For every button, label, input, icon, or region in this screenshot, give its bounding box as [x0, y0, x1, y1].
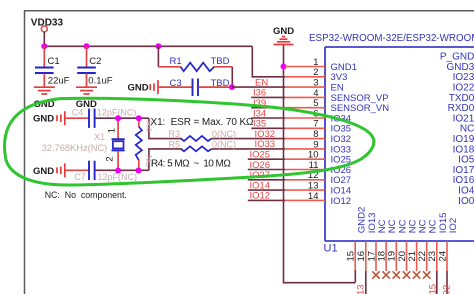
pin 16 bottom (IO13) [356, 212, 378, 271]
power flag VDD33 [31, 17, 64, 46]
pin 9 row (IO33) [255, 139, 352, 155]
pin 11 row (IO26) [248, 160, 351, 176]
svg-text:C7: C7 [74, 172, 86, 182]
svg-text:0.1uF: 0.1uF [88, 75, 112, 86]
ground for C3 (sideways) [128, 80, 159, 94]
svg-text:R1: R1 [170, 56, 182, 67]
pin 2 row (3V3) [285, 67, 347, 83]
svg-text:C3: C3 [170, 78, 182, 89]
wire VDD33 rail [44, 45, 252, 47]
svg-text:IO15: IO15 [428, 284, 439, 294]
svg-text:IO0: IO0 [458, 196, 474, 207]
crystal circuit: ground (C4 row, sideways) [33, 111, 65, 125]
svg-text:1: 1 [107, 128, 118, 133]
resistor R4 (vertical, NC) [136, 118, 154, 170]
svg-text:TBD: TBD [211, 78, 230, 89]
pin 18 bottom (NC) [376, 219, 398, 278]
right side pin names (module continues past image edge) [440, 52, 474, 207]
pin 6 row (IO34) [251, 108, 351, 124]
svg-text:IO12: IO12 [331, 196, 352, 207]
svg-text:GND: GND [128, 83, 149, 94]
ESP32 module U1 outline [309, 33, 474, 255]
svg-text:GND: GND [33, 114, 54, 125]
wire GND down the chip left side [284, 45, 356, 282]
svg-text:12pF(NC): 12pF(NC) [98, 172, 138, 182]
junction node R1 tap [155, 43, 161, 49]
wire R5 to IO33 pin 9 [212, 148, 286, 150]
wire crystal top row corner down to IO32 row [149, 118, 182, 138]
resistor R5 0(NC) [169, 139, 237, 151]
pin 20 bottom (NC) [397, 219, 419, 278]
pin 17 bottom (NC) [366, 219, 388, 278]
capacitor C4 12pF(NC) [66, 107, 149, 128]
wire EN to pin 3 [232, 86, 285, 88]
svg-text:NC: No component.: NC: No component. [45, 190, 127, 200]
capacitor C1 22uF [35, 46, 70, 87]
pin 13 row (IO14) [248, 180, 351, 196]
node EN junction [229, 84, 235, 90]
resistor R3 0(NC) [169, 129, 237, 141]
wire pin24 IO2 continues down [442, 271, 453, 294]
svg-text:U1: U1 [324, 243, 338, 255]
svg-text:GND2: GND2 [356, 207, 367, 234]
junction GND pin1 [281, 64, 287, 70]
pin 24 bottom (IO2) [437, 218, 459, 271]
junction crystal bottom [115, 168, 121, 174]
capacitor C7 12pF(NC) [66, 161, 149, 182]
pin 14 row (IO12) [248, 191, 351, 207]
svg-text:0(NC): 0(NC) [212, 129, 236, 139]
wire R3 to IO32 pin 8 [212, 138, 286, 140]
junction R4 top [136, 115, 142, 121]
svg-text:C4: C4 [72, 107, 84, 117]
wire rail corner down to 3V3 pin 2 [252, 46, 285, 77]
wire R1 output down to EN node [231, 67, 233, 87]
svg-text:ESP32-WROOM-32E/ESP32-WROOM-32: ESP32-WROOM-32E/ESP32-WROOM-32UE [309, 33, 474, 44]
svg-text:GND: GND [273, 26, 294, 37]
pin 4 row (SENSOR_VP) [251, 88, 388, 104]
wire pin15 GND2 down to GND return [354, 271, 356, 283]
svg-text:C2: C2 [89, 56, 101, 67]
svg-text:24: 24 [437, 251, 448, 262]
wire pin23 IO15 continues down [428, 271, 439, 294]
pin 3 row (EN) [285, 78, 344, 94]
pin 19 bottom (NC) [387, 219, 409, 278]
pin 10 row (IO25) [248, 150, 351, 166]
pin 22 bottom (NC) [417, 219, 439, 278]
svg-text:C1: C1 [48, 56, 60, 67]
pin 1 row (GND1) [285, 57, 357, 73]
svg-text:IO12: IO12 [250, 191, 271, 202]
junction node C2 tap [84, 43, 90, 49]
svg-text:22uF: 22uF [48, 75, 70, 86]
ground for C2 [76, 87, 97, 110]
resistor R1 TBD [158, 46, 232, 71]
pin 12 row (IO27) [248, 170, 351, 186]
green annotation ellipse [5, 98, 374, 185]
svg-text:2: 2 [104, 156, 115, 161]
svg-text:R4: 5 MΩ ~ 10 MΩ: R4: 5 MΩ ~ 10 MΩ [151, 159, 231, 170]
pin 23 bottom (IO15) [427, 212, 449, 271]
pin 15 bottom (GND2) [346, 207, 368, 271]
ground for C1 [34, 87, 55, 110]
ground GND top (chip pin 1) [273, 26, 294, 45]
svg-text:IO2: IO2 [448, 218, 459, 233]
svg-text:IO13: IO13 [355, 284, 366, 294]
wire crystal bottom row corner up to IO33 row [149, 149, 182, 171]
wire pin16 IO13 continues down [355, 271, 366, 294]
pin 7 row (IO35) [251, 119, 351, 135]
pin 5 row (SENSOR_VN) [251, 98, 389, 114]
svg-text:R5: R5 [169, 139, 181, 149]
capacitor C2 0.1uF [77, 46, 113, 87]
svg-text:GND: GND [33, 166, 54, 177]
svg-text:X1: X1 [94, 132, 105, 142]
junction crystal top [115, 115, 121, 121]
svg-text:EN: EN [255, 77, 268, 88]
crystal X1 32.768KHz(NC) [42, 118, 125, 170]
capacitor C3 TBD [159, 78, 232, 96]
svg-text:0(NC): 0(NC) [212, 139, 236, 149]
pin 21 bottom (NC) [407, 219, 429, 278]
junction node VDD33/C1 [41, 43, 47, 49]
svg-text:14: 14 [308, 191, 319, 202]
svg-text:15: 15 [346, 251, 357, 262]
svg-text:R3: R3 [169, 129, 181, 139]
svg-text:IO2: IO2 [442, 285, 453, 294]
svg-text:X1: ESR = Max. 70 KΩ: X1: ESR = Max. 70 KΩ [151, 117, 255, 128]
svg-text:32.768KHz(NC): 32.768KHz(NC) [42, 143, 108, 153]
svg-text:TBD: TBD [211, 56, 230, 67]
pin 8 row (IO32) [255, 129, 352, 145]
ground (C7 row, sideways) [33, 163, 65, 177]
junction R4 bottom [136, 168, 142, 174]
